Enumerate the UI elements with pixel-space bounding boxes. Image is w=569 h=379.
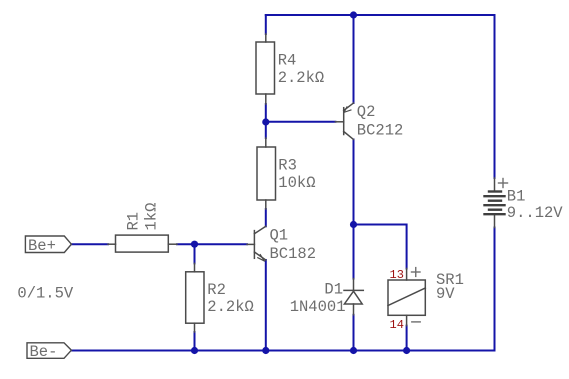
relay SR1 bbox=[388, 269, 425, 326]
node junction bottom rail R2 bbox=[191, 347, 198, 354]
svg-text:9..12V: 9..12V bbox=[507, 204, 564, 222]
svg-text:BC212: BC212 bbox=[357, 121, 404, 139]
transistor Q1 emitter arrow bbox=[258, 255, 265, 261]
terminal Be- bbox=[27, 343, 71, 359]
wire R2 bottom to bottom rail bbox=[194, 332, 196, 351]
wire junction to Q1 base bbox=[195, 243, 248, 245]
svg-text:14: 14 bbox=[390, 318, 404, 332]
svg-text:Be+: Be+ bbox=[28, 237, 56, 255]
wire Q2 collector down to node bbox=[353, 140, 355, 225]
svg-text:Q1: Q1 bbox=[270, 227, 289, 245]
wire node to SR1 pin 13 bbox=[354, 225, 407, 269]
resistor R2 bbox=[186, 263, 204, 332]
wire battery bottom to bottom rail bbox=[494, 228, 496, 351]
wire node to R3 top bbox=[265, 122, 267, 138]
transistor Q2 emitter arrow (PNP, points at base) bbox=[344, 107, 351, 112]
wire bottom rail bbox=[71, 350, 494, 352]
svg-text:1kΩ: 1kΩ bbox=[143, 203, 161, 231]
node junction Q2 collector/D1/SR1 bbox=[350, 221, 357, 228]
svg-text:10kΩ: 10kΩ bbox=[278, 174, 315, 192]
node junction bottom rail D1 bbox=[350, 347, 357, 354]
node junction bottom rail SR1 bbox=[403, 347, 410, 354]
wire Q1 emitter to bottom rail bbox=[265, 260, 267, 351]
wire node to D1 top bbox=[353, 225, 355, 279]
svg-text:Q2: Q2 bbox=[357, 103, 376, 121]
svg-text:R1: R1 bbox=[125, 212, 143, 231]
terminal Be+ bbox=[25, 236, 71, 253]
svg-text:2.2kΩ: 2.2kΩ bbox=[207, 298, 254, 316]
transistor Q1 bbox=[247, 226, 266, 260]
svg-text:0/1.5V: 0/1.5V bbox=[17, 285, 74, 303]
diode D1 bbox=[344, 279, 363, 315]
wire SR1 pin 14 to bottom rail bbox=[406, 326, 408, 351]
node junction R1/R2/Q1 base bbox=[191, 241, 198, 248]
wire R4 bottom to node bbox=[265, 104, 267, 122]
wire top rail bbox=[266, 14, 495, 16]
relay SR1 minus mark bbox=[412, 321, 420, 323]
svg-text:R3: R3 bbox=[278, 156, 297, 174]
svg-text:R2: R2 bbox=[207, 281, 226, 299]
resistor R1 bbox=[108, 235, 177, 252]
node junction top rail / Q2 emitter bbox=[350, 11, 357, 18]
svg-text:13: 13 bbox=[390, 268, 404, 282]
wire battery rail right side down bbox=[494, 15, 496, 178]
node junction R4/R3/Q2 base bbox=[262, 118, 269, 125]
svg-text:B1: B1 bbox=[507, 187, 526, 205]
wire junction down to R2 bbox=[194, 244, 196, 263]
wire R1 to base junction bbox=[177, 243, 195, 245]
svg-text:R4: R4 bbox=[278, 52, 297, 70]
svg-text:2.2kΩ: 2.2kΩ bbox=[278, 69, 325, 87]
wire node to Q2 base bbox=[266, 121, 336, 123]
svg-text:D1: D1 bbox=[324, 281, 343, 299]
svg-text:1N4001: 1N4001 bbox=[290, 298, 346, 316]
resistor R4 bbox=[256, 34, 275, 104]
wire R3 bottom to Q1 collector bbox=[265, 209, 267, 226]
wire top rail drop to R4 bbox=[265, 15, 267, 34]
battery B1 plus mark bbox=[499, 179, 508, 188]
svg-text:Be-: Be- bbox=[30, 343, 58, 361]
battery B1 bbox=[494, 178, 496, 228]
wire Q2 emitter up to top rail bbox=[353, 15, 355, 103]
wire Be+ to R1 bbox=[71, 243, 108, 245]
relay SR1 plus mark bbox=[412, 268, 421, 277]
svg-text:9V: 9V bbox=[436, 285, 455, 303]
svg-text:BC182: BC182 bbox=[270, 245, 317, 263]
resistor R3 bbox=[257, 138, 276, 209]
wire D1 bottom to bottom rail bbox=[353, 315, 355, 351]
transistor Q2 bbox=[335, 103, 353, 140]
node junction bottom rail Q1 emitter bbox=[262, 347, 269, 354]
